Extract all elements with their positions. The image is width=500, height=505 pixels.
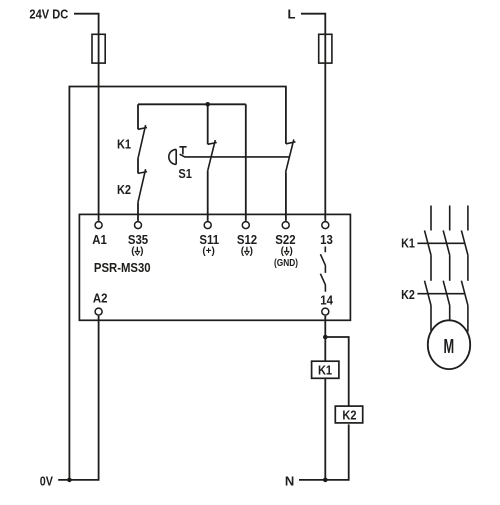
svg-text:S1: S1: [178, 166, 192, 181]
contactor K2 main contacts: [425, 281, 468, 306]
wire rail to S12: [245, 104, 247, 221]
junction 0V rail: [67, 478, 72, 483]
wire 14 to K1 coil: [324, 316, 326, 361]
contact S1 second channel (S22): [286, 139, 296, 172]
linkage S1 to contacts: [180, 154, 290, 157]
wire phase 3 mid: [467, 255, 469, 281]
pushbutton S1 plunger: [179, 147, 186, 155]
coil K1: [312, 361, 339, 378]
svg-text:A2: A2: [93, 291, 108, 306]
wire 0V rail: [58, 87, 286, 480]
wire 24V DC supply to A1: [74, 14, 99, 221]
junction rail / S11 branch: [205, 102, 210, 107]
fuse F1: [92, 34, 105, 63]
wire L supply to 13: [301, 14, 325, 221]
svg-text:0V: 0V: [40, 474, 53, 489]
svg-text:S22: S22: [275, 232, 296, 247]
wire S22 lead: [285, 172, 287, 221]
fuse F2: [319, 34, 332, 63]
junction 14 / K2 branch: [323, 335, 328, 340]
terminal 14: [322, 308, 329, 315]
contactor K1 main contacts: [425, 230, 468, 255]
wire phase 1 mid: [430, 255, 432, 281]
svg-text:L: L: [288, 6, 296, 21]
wire rail to S1 first contact: [207, 104, 209, 144]
motor M: [428, 320, 470, 369]
terminal S22: [282, 222, 289, 229]
wire phase 3 top: [467, 206, 469, 231]
linkage contactor K1: [417, 242, 464, 244]
relay PSR-MS30 body: [79, 214, 350, 320]
svg-text:A1: A1: [92, 232, 107, 247]
wire K2 coil return to N: [325, 424, 348, 480]
svg-text:K1: K1: [117, 137, 131, 152]
wire to S35: [137, 202, 139, 221]
svg-text:PSR-MS30: PSR-MS30: [94, 260, 151, 275]
wire to S11: [207, 171, 209, 221]
svg-text:S35: S35: [128, 232, 149, 247]
svg-text:K2: K2: [117, 182, 131, 197]
terminal A2: [95, 308, 102, 315]
wire N feed: [299, 479, 325, 481]
wire phase 2 mid: [449, 255, 451, 281]
svg-text:K1: K1: [401, 236, 415, 251]
contact S1 first channel (S11): [208, 140, 217, 171]
terminal S11: [204, 222, 211, 229]
contact K1 aux NO: [138, 125, 147, 158]
wire branch to K2 coil: [325, 337, 348, 406]
linkage contactor K2: [417, 293, 464, 295]
svg-text:K1: K1: [318, 363, 332, 378]
junction N: [323, 478, 328, 483]
svg-text:M: M: [443, 335, 454, 358]
terminal S12: [242, 222, 249, 229]
wire phase 2 to motor: [449, 305, 451, 320]
svg-text:14: 14: [320, 293, 333, 308]
svg-text:S11: S11: [199, 232, 219, 247]
svg-text:24V DC: 24V DC: [29, 7, 68, 22]
svg-text:K2: K2: [342, 408, 356, 423]
terminal S35: [135, 222, 142, 229]
wire internal supply rail: [138, 103, 246, 105]
pushbutton S1 mushroom head: [169, 149, 176, 164]
wire K1 coil to N: [324, 379, 326, 480]
coil K2: [335, 406, 362, 423]
wire phase 3 to motor: [467, 305, 469, 331]
svg-text:(+): (+): [202, 246, 215, 257]
svg-text:S12: S12: [237, 232, 258, 247]
svg-text:(GND): (GND): [274, 257, 298, 268]
terminal A1: [95, 222, 102, 229]
svg-text:N: N: [285, 474, 294, 489]
svg-text:K2: K2: [401, 287, 415, 302]
wire phase 1 top: [430, 206, 432, 231]
contact safety output 13-14: [320, 247, 325, 292]
svg-text:13: 13: [320, 232, 333, 247]
wire phase 2 top: [449, 206, 451, 231]
wire 0V to A2: [69, 316, 98, 480]
contact K2 aux NO: [138, 169, 147, 202]
terminal 13: [322, 222, 329, 229]
wire K1 aux to K2 aux: [137, 159, 139, 174]
wire phase 1 to motor: [430, 305, 432, 330]
wire rail to K1 aux contact: [137, 104, 139, 129]
